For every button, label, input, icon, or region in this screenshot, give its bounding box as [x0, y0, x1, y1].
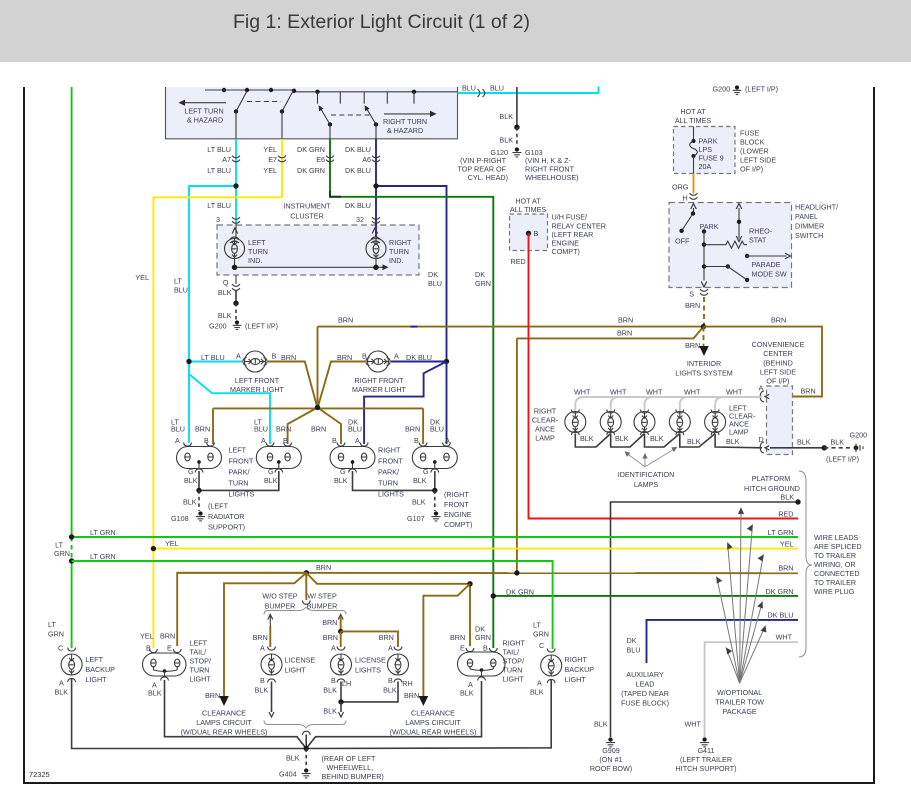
ground G200 right — [854, 445, 859, 450]
splice pointer arrow 6 — [740, 602, 763, 684]
bumper option brace — [264, 607, 346, 615]
svg-text:YEL: YEL — [140, 632, 154, 641]
svg-text:BLU: BLU — [490, 84, 504, 93]
svg-text:BLK: BLK — [650, 434, 664, 443]
svg-text:BLK: BLK — [615, 434, 629, 443]
BRN rear junction — [304, 570, 309, 575]
svg-text:BRN: BRN — [338, 316, 353, 325]
svg-text:CONNECTED: CONNECTED — [814, 569, 860, 578]
wire BRN to LH license — [340, 631, 342, 647]
svg-text:A: A — [537, 679, 542, 688]
svg-text:LT GRN: LT GRN — [90, 552, 116, 561]
svg-text:LT BLU: LT BLU — [201, 353, 225, 362]
svg-text:BLK: BLK — [264, 476, 278, 485]
svg-text:RIGHT TURN: RIGHT TURN — [383, 117, 427, 126]
svg-text:BLK: BLK — [334, 476, 348, 485]
svg-text:ARE SPLICED: ARE SPLICED — [814, 542, 862, 551]
svg-text:RH: RH — [402, 679, 412, 688]
svg-text:DK: DK — [428, 270, 438, 279]
svg-text:TURN: TURN — [378, 479, 398, 488]
svg-text:LT: LT — [48, 620, 56, 629]
svg-text:G200: G200 — [850, 431, 868, 440]
svg-text:HOT AT: HOT AT — [680, 107, 706, 116]
svg-text:TURN: TURN — [229, 479, 249, 488]
svg-text:SUPPORT): SUPPORT) — [208, 523, 245, 532]
svg-text:B: B — [332, 436, 337, 445]
svg-text:TURN: TURN — [190, 666, 210, 675]
svg-text:G: G — [188, 467, 194, 476]
splice pointer arrow 2 — [740, 525, 753, 684]
svg-text:BRN: BRN — [450, 633, 465, 642]
svg-text:BRN: BRN — [195, 425, 210, 434]
svg-text:BLU: BLU — [627, 646, 641, 655]
svg-text:BLK: BLK — [148, 689, 162, 698]
wire DK BLU marker feed — [391, 361, 447, 363]
svg-text:TAIL/: TAIL/ — [503, 648, 520, 657]
svg-text:BLK: BLK — [831, 438, 845, 447]
svg-text:LEFT SIDE: LEFT SIDE — [760, 367, 796, 376]
wire LT GRN left main — [71, 87, 73, 537]
svg-text:LEAD: LEAD — [636, 680, 655, 689]
svg-text:DK: DK — [627, 636, 637, 645]
wire BLK clearance ground chain — [575, 434, 610, 448]
svg-text:72325: 72325 — [29, 770, 50, 779]
svg-text:DIMMER: DIMMER — [795, 222, 824, 231]
svg-text:B: B — [331, 676, 336, 685]
svg-text:BLK: BLK — [55, 688, 69, 697]
svg-text:C: C — [539, 641, 544, 650]
svg-text:RED: RED — [778, 510, 793, 519]
wire LT BLU drop A7 — [235, 139, 237, 224]
svg-text:OF I/P): OF I/P) — [766, 376, 789, 385]
svg-text:BLK: BLK — [218, 311, 232, 320]
svg-text:H: H — [683, 194, 688, 203]
svg-text:W/OPTIONAL: W/OPTIONAL — [717, 688, 762, 697]
svg-text:E: E — [167, 644, 172, 653]
svg-text:& HAZARD: & HAZARD — [187, 116, 223, 125]
connector Q — [235, 275, 237, 284]
splice pointer arrow 5 — [717, 577, 740, 684]
svg-text:BRN: BRN — [253, 633, 268, 642]
svg-text:BRN: BRN — [617, 329, 632, 338]
svg-text:BLK: BLK — [323, 686, 337, 695]
wire BLK right tail to G404 — [306, 681, 481, 749]
svg-text:DK BLU: DK BLU — [345, 145, 371, 154]
svg-text:(LEFT I/P): (LEFT I/P) — [245, 322, 278, 331]
wire BRN to left clearance arrow — [224, 573, 306, 697]
cluster internal wire — [235, 266, 385, 268]
wire WHT splice run — [705, 642, 798, 737]
junction LT BLU — [189, 186, 236, 443]
svg-text:WHT: WHT — [610, 388, 627, 397]
clearance/id lamp bulb 2 — [607, 410, 615, 414]
svg-text:BRN: BRN — [618, 316, 633, 325]
svg-text:MODE SW: MODE SW — [752, 270, 787, 279]
svg-text:LIGHT: LIGHT — [503, 675, 525, 684]
wire BLK left backup to G404 — [72, 678, 307, 749]
svg-text:LEFT TURN: LEFT TURN — [184, 107, 223, 116]
svg-text:CENTER: CENTER — [763, 349, 793, 358]
svg-text:BLK: BLK — [183, 498, 197, 507]
park contact chain — [702, 229, 706, 233]
wire RED — [529, 233, 799, 518]
svg-text:BUMPER: BUMPER — [307, 602, 338, 611]
splice pointer arrow 3 — [728, 543, 740, 684]
left turn indicator lamp — [235, 224, 237, 237]
title bar — [0, 0, 911, 62]
headlight/panel dimmer switch box — [669, 203, 792, 288]
svg-text:BRN: BRN — [685, 301, 700, 310]
svg-text:BRN: BRN — [205, 691, 220, 700]
wire LT GRN lower branch — [72, 561, 553, 649]
svg-text:A: A — [236, 352, 241, 361]
dimmer output — [701, 282, 707, 288]
wire DK BLU drop A6 — [375, 139, 377, 224]
svg-text:BLU: BLU — [174, 286, 188, 295]
svg-text:20A: 20A — [699, 162, 712, 171]
wire BRN star junction riser — [317, 327, 319, 408]
wire BLK left tail to G404 — [165, 680, 307, 749]
svg-text:BLK: BLK — [218, 288, 232, 297]
svg-text:CLEAR-: CLEAR- — [532, 416, 559, 425]
license collector brace — [264, 721, 346, 729]
ground G120/G103 — [515, 147, 519, 151]
parade switch arm — [704, 266, 728, 268]
svg-text:FUSE BLOCK): FUSE BLOCK) — [621, 699, 669, 708]
svg-text:LEFT: LEFT — [229, 446, 247, 455]
svg-text:LAMPS: LAMPS — [634, 480, 659, 489]
svg-text:BLK: BLK — [499, 136, 513, 145]
svg-text:LAMP: LAMP — [729, 428, 749, 437]
svg-text:BLK: BLK — [413, 476, 427, 485]
ground G107 — [434, 490, 436, 511]
right switch arm 1 — [320, 108, 330, 125]
wire BLK right backup to G404 — [306, 679, 551, 749]
svg-text:(LEFT TRAILER: (LEFT TRAILER — [680, 755, 732, 764]
svg-text:32: 32 — [356, 215, 364, 224]
svg-text:COMPT): COMPT) — [444, 520, 472, 529]
svg-text:TURN: TURN — [389, 247, 409, 256]
svg-text:E: E — [460, 644, 465, 653]
wire DK GRN drop E6 — [329, 139, 331, 197]
svg-text:CONVENIENCE: CONVENIENCE — [752, 340, 805, 349]
svg-text:BLK: BLK — [726, 437, 740, 446]
svg-text:LIGHTS SYSTEM: LIGHTS SYSTEM — [675, 369, 733, 378]
wire DK BLU branch to park lamps — [364, 362, 446, 445]
svg-text:WHT: WHT — [574, 388, 591, 397]
svg-text:RHEO-: RHEO- — [749, 227, 773, 236]
svg-text:MARKER LIGHT: MARKER LIGHT — [352, 385, 407, 394]
svg-text:PARK/: PARK/ — [229, 468, 250, 477]
wire BRN bus upper — [318, 326, 704, 328]
svg-text:LEFT: LEFT — [85, 655, 103, 664]
svg-text:BRN: BRN — [801, 387, 816, 396]
svg-text:LAMPS CIRCUIT: LAMPS CIRCUIT — [196, 718, 252, 727]
svg-text:PLATFORM: PLATFORM — [752, 474, 791, 483]
svg-text:LAMPS CIRCUIT: LAMPS CIRCUIT — [405, 718, 461, 727]
svg-text:G404: G404 — [279, 770, 297, 779]
svg-text:BLK: BLK — [412, 498, 426, 507]
YEL splice junction — [151, 546, 156, 551]
svg-text:BLU: BLU — [430, 425, 444, 434]
connector E6 — [326, 156, 334, 158]
wire BLK platform hitch — [611, 502, 799, 737]
w/o step bumper lead — [268, 615, 273, 620]
right clearance lamps circuit arrow — [419, 696, 429, 706]
svg-text:LIGHT: LIGHT — [190, 675, 212, 684]
right turn arrow — [384, 113, 433, 115]
svg-text:DK BLU: DK BLU — [768, 611, 794, 620]
dimmer pole — [693, 208, 695, 214]
svg-text:DK GRN: DK GRN — [766, 587, 794, 596]
parade mode contact — [745, 254, 749, 258]
svg-text:WHEELHOUSE): WHEELHOUSE) — [525, 173, 579, 182]
svg-text:C: C — [58, 644, 63, 653]
svg-text:INTERIOR: INTERIOR — [687, 359, 721, 368]
svg-text:WIRE LEADS: WIRE LEADS — [814, 533, 859, 542]
wire LT GRN splice run — [72, 536, 798, 538]
svg-text:BRN: BRN — [281, 353, 296, 362]
svg-text:DK BLU: DK BLU — [406, 353, 432, 362]
svg-text:BLK: BLK — [255, 686, 269, 695]
svg-text:A7: A7 — [222, 155, 231, 164]
svg-text:PARK: PARK — [700, 222, 719, 231]
svg-text:S: S — [689, 290, 694, 299]
svg-text:BLU: BLU — [254, 425, 268, 434]
identification lamps pointer — [626, 448, 677, 467]
left switch dashed link — [247, 101, 281, 103]
svg-text:BLOCK: BLOCK — [740, 138, 765, 147]
wire LT BLU backfeed from switch — [458, 87, 599, 94]
connector E7 — [278, 156, 286, 158]
rheostat slider — [738, 208, 740, 239]
svg-text:BLU: BLU — [348, 425, 362, 434]
wire BRN to left tail E — [177, 573, 306, 646]
svg-text:ALL TIMES: ALL TIMES — [510, 205, 547, 214]
svg-text:STOP/: STOP/ — [190, 657, 211, 666]
svg-text:DK GRN: DK GRN — [297, 166, 325, 175]
svg-text:WHT: WHT — [646, 388, 663, 397]
G404 junction — [304, 746, 309, 751]
svg-text:A6: A6 — [362, 155, 371, 164]
connector A6 — [372, 156, 380, 158]
svg-text:A: A — [355, 436, 360, 445]
svg-text:BLK: BLK — [580, 434, 594, 443]
svg-text:BRN: BRN — [379, 633, 394, 642]
svg-text:GRN: GRN — [533, 630, 549, 639]
svg-text:DK BLU: DK BLU — [345, 166, 371, 175]
license light LH — [337, 647, 345, 651]
svg-text:CYL. HEAD): CYL. HEAD) — [468, 173, 508, 182]
svg-text:G: G — [268, 467, 274, 476]
svg-text:B: B — [483, 644, 488, 653]
svg-text:TRAILER TOW: TRAILER TOW — [715, 698, 764, 707]
svg-text:Q: Q — [223, 278, 229, 287]
license light RH — [394, 647, 402, 651]
svg-text:BLK: BLK — [594, 720, 608, 729]
svg-text:TO TRAILER: TO TRAILER — [814, 578, 856, 587]
wire BLK from D to G200 — [770, 447, 824, 449]
right switch arm 2 — [366, 108, 376, 125]
svg-text:LEFT FRONT: LEFT FRONT — [235, 376, 280, 385]
wire BRN to right clearance arrow — [423, 584, 470, 697]
connector on BLU wire — [478, 89, 485, 97]
svg-text:BLU: BLU — [462, 84, 476, 93]
wire BRN splice run — [177, 572, 798, 574]
wire BLK to G120/G103 — [516, 87, 518, 127]
svg-text:HEADLIGHT/: HEADLIGHT/ — [795, 203, 838, 212]
star junction horizontals — [213, 407, 423, 409]
svg-text:HITCH SUPPORT): HITCH SUPPORT) — [676, 764, 737, 773]
svg-text:BRN: BRN — [322, 618, 337, 627]
svg-text:GRN: GRN — [54, 549, 70, 558]
wire BRN star to lamp3 — [318, 408, 342, 445]
svg-text:BLK: BLK — [460, 689, 474, 698]
svg-text:BRN: BRN — [405, 425, 420, 434]
svg-text:YEL: YEL — [165, 539, 179, 548]
wire YEL long left run — [153, 197, 282, 648]
svg-text:WIRING, OR: WIRING, OR — [814, 560, 856, 569]
svg-text:E7: E7 — [268, 155, 277, 164]
svg-text:DK: DK — [475, 270, 485, 279]
svg-text:BLK: BLK — [184, 476, 198, 485]
svg-text:(LOWER: (LOWER — [740, 147, 769, 156]
right turn indicator lamp — [375, 224, 377, 237]
svg-text:YEL: YEL — [263, 166, 277, 175]
svg-text:A: A — [388, 644, 393, 653]
svg-text:G200: G200 — [713, 85, 731, 94]
svg-text:GRN: GRN — [475, 279, 491, 288]
svg-text:BRN: BRN — [685, 341, 700, 350]
svg-text:ANCE: ANCE — [535, 425, 555, 434]
svg-text:BACKUP: BACKUP — [85, 665, 115, 674]
connector A7 — [232, 156, 240, 158]
svg-text:(LEFT: (LEFT — [208, 502, 229, 511]
clearance/id lamp bulb 3 — [641, 410, 649, 414]
wire BRN to RH license — [341, 631, 398, 647]
wire leads brace — [799, 471, 812, 657]
svg-text:BACKUP: BACKUP — [565, 665, 595, 674]
left hazard switch arm 1 — [236, 91, 247, 112]
svg-text:W/O STEP: W/O STEP — [262, 592, 297, 601]
fuse PARK LPS FUSE 9 20A — [693, 127, 695, 142]
svg-text:FRONT: FRONT — [444, 500, 469, 509]
wire BRN right marker to star — [318, 362, 365, 408]
svg-text:& HAZARD: & HAZARD — [387, 126, 423, 135]
svg-text:(LEFT I/P): (LEFT I/P) — [826, 455, 859, 464]
svg-text:ROOF BOW): ROOF BOW) — [590, 764, 632, 773]
svg-text:DK GRN: DK GRN — [297, 145, 325, 154]
svg-text:G107: G107 — [407, 514, 425, 523]
ground G108 — [198, 490, 200, 511]
wire DK GRN splice run — [493, 595, 798, 597]
svg-text:LICENSE: LICENSE — [285, 656, 316, 665]
svg-text:RED: RED — [511, 257, 526, 266]
svg-text:AUXILIARY: AUXILIARY — [626, 670, 664, 679]
wire BRN dashed from S — [703, 297, 705, 327]
svg-text:LIGHT: LIGHT — [565, 675, 587, 684]
wire BRN bus lower — [517, 327, 704, 339]
svg-text:BLK: BLK — [530, 688, 544, 697]
svg-text:YEL: YEL — [780, 540, 794, 549]
svg-text:E6: E6 — [316, 155, 325, 164]
off/park switch arm — [682, 214, 693, 231]
svg-text:BLU: BLU — [171, 425, 185, 434]
svg-text:BLK: BLK — [687, 437, 701, 446]
svg-text:YEL: YEL — [263, 145, 277, 154]
wire LT BLU to left marker — [189, 361, 242, 363]
svg-text:STAT: STAT — [749, 236, 767, 245]
svg-text:BRN: BRN — [311, 425, 326, 434]
wire DK GRN right run — [330, 197, 493, 648]
svg-text:PARK/: PARK/ — [378, 468, 399, 477]
svg-text:RADIATOR: RADIATOR — [208, 512, 244, 521]
junction DK BLU — [376, 186, 447, 362]
svg-text:LT BLU: LT BLU — [207, 166, 231, 175]
svg-text:G: G — [423, 467, 429, 476]
svg-text:A: A — [445, 436, 450, 445]
svg-text:BLK: BLK — [286, 754, 300, 763]
svg-text:OF I/P): OF I/P) — [740, 165, 763, 174]
svg-text:FRONT: FRONT — [229, 457, 254, 466]
wire BLK cluster ground — [235, 290, 237, 303]
svg-text:G: G — [340, 467, 346, 476]
svg-text:ORG: ORG — [672, 183, 689, 192]
svg-text:A: A — [260, 644, 265, 653]
svg-text:RIGHT: RIGHT — [378, 446, 401, 455]
svg-text:DK GRN: DK GRN — [506, 588, 534, 597]
svg-text:BLK: BLK — [499, 112, 513, 121]
license light 1 — [268, 647, 276, 651]
svg-text:LIGHT: LIGHT — [85, 675, 107, 684]
svg-text:LH: LH — [342, 679, 351, 688]
svg-text:BLK: BLK — [797, 438, 811, 447]
svg-text:A: A — [394, 352, 399, 361]
svg-text:LIGHT: LIGHT — [285, 666, 307, 675]
svg-text:BRN: BRN — [276, 425, 291, 434]
svg-text:LT BLU: LT BLU — [207, 201, 231, 210]
wire BRN to right tail E branch — [306, 573, 470, 646]
wire BRN to convenience center A — [704, 327, 823, 397]
svg-text:OFF: OFF — [675, 237, 690, 246]
splice pointer arrow 1 — [740, 508, 741, 684]
svg-text:LT BLU: LT BLU — [207, 145, 231, 154]
svg-text:BLU: BLU — [428, 279, 442, 288]
svg-text:BRN: BRN — [771, 316, 786, 325]
svg-text:SWITCH: SWITCH — [795, 231, 823, 240]
svg-text:B: B — [260, 676, 265, 685]
svg-text:BRN: BRN — [160, 632, 175, 641]
svg-text:G200: G200 — [209, 322, 227, 331]
svg-text:BRN: BRN — [778, 564, 793, 573]
svg-text:B: B — [534, 229, 539, 238]
terminal B — [526, 231, 531, 236]
svg-text:(TAPED NEAR: (TAPED NEAR — [621, 689, 669, 698]
svg-text:RIGHT: RIGHT — [503, 639, 526, 648]
wire BRN to lamp1 — [212, 408, 214, 444]
switch feed rail — [205, 90, 458, 92]
left clearance lamps circuit arrow — [219, 696, 229, 706]
right switch dashed link — [331, 114, 372, 116]
svg-text:PARADE: PARADE — [752, 260, 781, 269]
wire WHT clearance bus — [575, 397, 762, 411]
svg-text:BLK: BLK — [383, 686, 397, 695]
svg-text:WHEELWELL,: WHEELWELL, — [327, 763, 374, 772]
svg-text:LIGHTS: LIGHTS — [355, 666, 381, 675]
wire DK BLU splice run — [647, 620, 799, 663]
svg-text:BUMPER: BUMPER — [265, 602, 296, 611]
svg-text:(LEFT I/P): (LEFT I/P) — [745, 85, 778, 94]
